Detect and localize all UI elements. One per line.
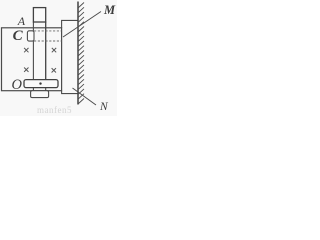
dashed level line bottom [34, 40, 61, 42]
label M [104, 3, 115, 18]
leader line to N [73, 88, 97, 105]
field region boundary rectangle [2, 28, 62, 91]
flux symbol x3 [24, 68, 28, 72]
label C [13, 28, 23, 45]
label N [100, 101, 108, 113]
block A top square [33, 8, 45, 22]
label A [18, 14, 25, 29]
dashed level line top [34, 30, 61, 32]
label O [12, 77, 22, 94]
leader line to M [63, 12, 101, 38]
bottom bracket to wall [62, 91, 78, 94]
flux symbol x4 [52, 68, 56, 72]
tube rails below bar [32, 87, 34, 90]
watermark [37, 105, 72, 115]
clamp box C [27, 31, 34, 41]
flux symbol x2 [52, 48, 56, 52]
bar at O with pivot dot [24, 80, 58, 88]
wall hatching [78, 3, 84, 105]
vertical tube right rail [45, 22, 47, 80]
top bracket to wall [62, 20, 78, 28]
pivot dot [39, 82, 41, 84]
vertical tube left rail [32, 22, 34, 80]
wall MN line [77, 2, 79, 105]
flux symbol x1 [24, 48, 28, 52]
bottom flange box [31, 91, 49, 98]
